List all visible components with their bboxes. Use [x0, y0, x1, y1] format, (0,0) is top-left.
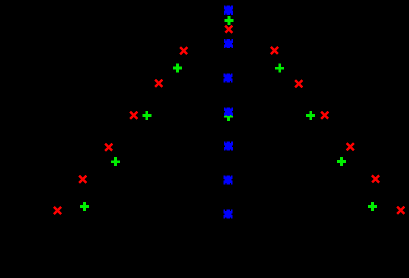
red x R1 — [225, 26, 232, 33]
red x R5 — [105, 144, 112, 151]
red x R10 — [321, 112, 328, 119]
green plus G8 — [337, 157, 346, 166]
red x R3 — [155, 80, 162, 87]
blue asterisk B3 — [224, 39, 233, 48]
blue asterisk B2 — [224, 6, 233, 15]
green plus G5 — [80, 202, 89, 211]
green plus G9 — [368, 202, 377, 211]
blue asterisk B1 — [224, 5, 233, 14]
blue asterisk B4 — [224, 73, 233, 82]
green plus G1 — [224, 16, 233, 25]
blue asterisk B6 — [224, 142, 233, 151]
blue asterisk B7 — [224, 175, 233, 184]
red x R13 — [397, 207, 404, 214]
red x R11 — [347, 143, 354, 150]
green plus G3 — [142, 111, 151, 120]
red x R7 — [54, 207, 61, 214]
red x R2 — [180, 47, 187, 54]
green plus G10 — [224, 112, 233, 121]
green plus G7 — [306, 111, 315, 120]
red x R4 — [130, 112, 137, 119]
red x R8 — [271, 47, 278, 54]
red x R12 — [372, 175, 379, 182]
red x R9 — [295, 80, 302, 87]
green plus G2 — [173, 64, 182, 73]
blue asterisk B8 — [224, 210, 233, 219]
green plus G6 — [275, 64, 284, 73]
green plus G4 — [111, 157, 120, 166]
red x R6 — [79, 176, 86, 183]
blue asterisk B5 — [224, 107, 233, 116]
